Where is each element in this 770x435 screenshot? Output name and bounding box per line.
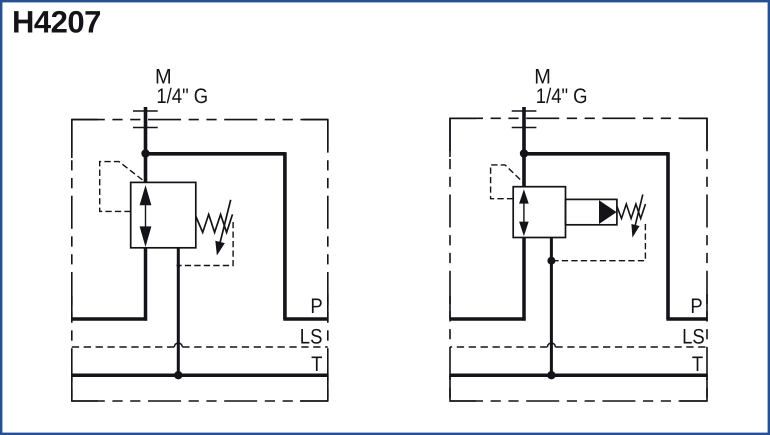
valve flow arrow (right, double-headed vertical) (519, 189, 529, 236)
node: junction dot on T (right) (547, 371, 555, 379)
pilot triangle (hydraulic pilot, solid) (599, 200, 617, 224)
measuring port M symbol (right): two ticks (512, 111, 537, 128)
enclosure corner pieces (left) (72, 120, 328, 401)
enclosure solid edge segments at P port (right) (450, 294, 707, 322)
spring chamber drain dashed line (right) (551, 224, 645, 261)
valve body box (left) (131, 182, 196, 247)
node: junction dot M/P (right) (520, 149, 528, 157)
svg-text:1/4" G: 1/4" G (536, 85, 588, 108)
wire: drain vertical to T (right) (550, 238, 553, 376)
enclosure dashed boundary (left manifold) (72, 120, 328, 401)
svg-text:LS: LS (300, 325, 323, 348)
LS line dashed with hop (left) (72, 346, 328, 348)
spring (left) (196, 214, 233, 232)
svg-text:T: T (311, 353, 322, 376)
wire: valve outlet vertical (left) (144, 248, 148, 321)
spring chamber drain dashed line (left) (178, 222, 233, 266)
valve flow arrow (left, double-headed vertical) (140, 185, 152, 247)
adjustment arrow through spring (left) (215, 200, 230, 256)
wire: P stub to port (left) (283, 317, 328, 321)
wire: P stub to port (right) (666, 317, 707, 321)
enclosure dashed boundary (right manifold) (450, 118, 707, 401)
spring (right) (617, 204, 646, 219)
T line (right) (450, 373, 707, 377)
pilot sensing dashed line (right) (491, 165, 524, 199)
svg-text:H4207: H4207 (12, 5, 101, 40)
wire: top horizontal P line (left) (146, 152, 285, 156)
node: small drain junction dot (left) (177, 264, 181, 268)
wire: valve outlet vertical (right) (522, 238, 526, 321)
T line (left) (72, 373, 328, 377)
LS hop arc over drain line (right) (547, 343, 555, 347)
LS hop arc over drain line (left) (174, 343, 182, 347)
svg-text:P: P (310, 295, 322, 318)
wire: drain vertical to T (left) (177, 248, 180, 376)
node: junction dot M/P (left) (141, 149, 149, 157)
valve body box (right) (513, 187, 565, 238)
pilot stage box (right) (566, 199, 617, 224)
wire: M stem (left) (144, 107, 148, 182)
wire: M stem (right) (522, 107, 526, 187)
svg-text:LS: LS (682, 325, 705, 348)
node: junction dot on T (left) (174, 371, 182, 379)
node: drain junction dot (right) (547, 257, 555, 265)
LS line dashed with hop (right) (450, 346, 707, 348)
pilot sensing dashed line (left) (100, 162, 145, 212)
wire: top horizontal P line (right) (524, 152, 668, 156)
wire: P riser right vertical (right) (666, 152, 670, 319)
wire: bottom-left horizontal (left) (72, 317, 147, 321)
svg-text:T: T (692, 353, 703, 376)
svg-text:P: P (690, 295, 702, 318)
wire: bottom-left horizontal (right) (450, 317, 526, 321)
adjustment arrow through spring (right) (631, 195, 642, 238)
enclosure solid edge segments at P port (left) (72, 294, 328, 322)
wire: P riser right vertical (left) (283, 152, 287, 319)
measuring port M symbol (left): two ticks (133, 111, 158, 128)
svg-text:1/4" G: 1/4" G (156, 85, 208, 108)
enclosure corner pieces (right) (450, 118, 707, 401)
